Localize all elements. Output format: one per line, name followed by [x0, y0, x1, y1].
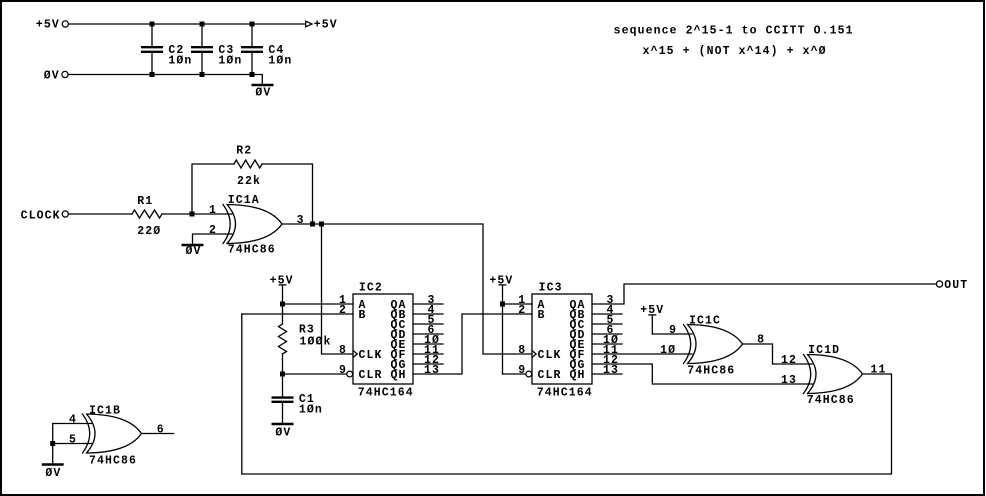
junction R3 C1 CLR node: [280, 372, 285, 377]
wire feedback to IC2 pin B: [242, 313, 353, 315]
wire 0V bottom rail: [69, 74, 253, 76]
svg-text:ØV: ØV: [45, 467, 61, 480]
svg-text:QH: QH: [570, 369, 586, 382]
svg-text:QH: QH: [391, 369, 407, 382]
node OUT terminal: [936, 281, 942, 287]
wire CLOCK input: [69, 213, 133, 215]
junction bottom rail C2: [150, 72, 155, 77]
svg-text:2: 2: [518, 304, 526, 317]
svg-text:CLK: CLK: [359, 349, 383, 362]
svg-text:9: 9: [669, 324, 677, 337]
wire IC1B inputs tied: [53, 424, 92, 464]
pin 12 IC3 QG wire to IC1D pin 13: [592, 364, 813, 384]
node 0V left terminal: [62, 71, 68, 77]
pin 11 IC2 QF stub: [413, 353, 443, 355]
wire IC1A pin 2 to ground: [193, 234, 233, 244]
svg-text:74HC86: 74HC86: [89, 454, 137, 467]
pin 3 IC2 QA stub: [413, 303, 443, 305]
junction node 3 R2: [310, 222, 315, 227]
svg-text:CLK: CLK: [538, 349, 562, 362]
junction IC3 pin A +5V: [500, 302, 505, 307]
wire feedback IC1D out to IC2 B: [242, 314, 892, 474]
svg-text:1: 1: [209, 204, 217, 217]
pin 9 bubble IC3 CLR: [526, 371, 532, 377]
junction bottom rail C3: [200, 72, 205, 77]
svg-text:2: 2: [209, 224, 217, 237]
ground top decoupling: [252, 75, 262, 84]
svg-text:22Ø: 22Ø: [137, 225, 161, 238]
pin 4 IC3 QB stub: [592, 313, 622, 315]
xor gate IC1D: [804, 355, 811, 394]
svg-text:74HC86: 74HC86: [807, 394, 855, 407]
ground IC1A pin 2: [182, 244, 204, 246]
pin 13 IC2 QH wire to IC3 B: [413, 314, 532, 374]
svg-text:1Ø: 1Ø: [660, 344, 676, 357]
junction top rail C3: [200, 22, 205, 27]
svg-text:74HC164: 74HC164: [358, 386, 414, 399]
wire feedback up to R2: [192, 164, 234, 214]
svg-text:CLOCK: CLOCK: [21, 210, 61, 223]
svg-text:4: 4: [69, 414, 77, 427]
resistor R3 100k: [282, 304, 284, 374]
node CLOCK terminal: [62, 211, 68, 217]
wire +5V node to IC3 pin 9: [503, 373, 526, 375]
svg-text:8: 8: [518, 344, 526, 357]
junction IC2 pin A +5V: [280, 302, 285, 307]
wire R2 to IC1A output node: [262, 164, 313, 224]
svg-text:9: 9: [339, 364, 347, 377]
svg-text:+5V: +5V: [36, 18, 60, 31]
svg-text:13: 13: [603, 364, 619, 377]
junction node 3 IC2 clock branch: [319, 222, 324, 227]
wire node 3 clock line: [282, 224, 532, 354]
pin 5 IC3 QC stub: [592, 323, 622, 325]
pin 5 IC2 QC stub: [413, 323, 443, 325]
junction R2 tap: [190, 212, 195, 217]
svg-text:3: 3: [297, 214, 305, 227]
resistor R1 220: [132, 210, 162, 218]
pin 9 bubble IC2 CLR: [347, 371, 353, 377]
pin 10 IC2 QE stub: [413, 343, 443, 345]
wire +5V top rail: [69, 23, 306, 25]
svg-text:74HC86: 74HC86: [228, 243, 276, 256]
svg-text:CLR: CLR: [538, 369, 562, 382]
svg-text:13: 13: [424, 364, 440, 377]
wire R1 to IC1A pin 1: [162, 213, 232, 215]
svg-text:74HC164: 74HC164: [537, 386, 593, 399]
svg-text:x^15 + (NOT x^14) + x^Ø: x^15 + (NOT x^14) + x^Ø: [643, 45, 827, 58]
pin 12 IC2 QG stub: [413, 363, 443, 365]
svg-text:IC1D: IC1D: [808, 344, 840, 357]
node +5V right arrow terminal: [306, 21, 312, 27]
capacitor C3: [201, 24, 203, 75]
pin 13 IC3 QH stub: [592, 373, 622, 375]
junction top rail C2: [150, 22, 155, 27]
svg-text:sequence 2^15-1 to CCITT O.151: sequence 2^15-1 to CCITT O.151: [614, 24, 854, 37]
svg-text:1Øn: 1Øn: [299, 404, 323, 417]
svg-text:13: 13: [781, 374, 797, 387]
svg-text:ØV: ØV: [255, 86, 271, 99]
capacitor C1 10n: [282, 374, 284, 423]
svg-text:1Øn: 1Øn: [268, 54, 292, 67]
svg-text:22k: 22k: [237, 175, 261, 188]
svg-text:B: B: [359, 309, 367, 322]
svg-text:R2: R2: [236, 145, 252, 158]
svg-text:8: 8: [339, 344, 347, 357]
junction bottom rail C4: [250, 72, 255, 77]
svg-text:CLR: CLR: [359, 369, 383, 382]
svg-text:9: 9: [518, 364, 526, 377]
svg-text:ØV: ØV: [44, 69, 60, 82]
svg-text:IC1B: IC1B: [89, 405, 121, 418]
svg-text:IC1A: IC1A: [228, 194, 260, 207]
pin 6 IC2 QD stub: [413, 333, 443, 335]
pin 6 IC3 QD stub: [592, 333, 622, 335]
svg-text:1Øn: 1Øn: [218, 54, 242, 67]
capacitor C4: [251, 24, 253, 75]
svg-text:B: B: [538, 309, 546, 322]
svg-text:ØV: ØV: [186, 245, 202, 258]
svg-text:IC3: IC3: [539, 282, 563, 295]
pin 4 IC2 QB stub: [413, 313, 443, 315]
xor gate IC1C: [684, 325, 691, 364]
resistor R2 22k: [234, 160, 262, 168]
shift register IC2 74HC164: [353, 294, 413, 384]
wire +5V to IC1C pin 9: [652, 333, 692, 335]
pin 10 IC3 QE stub: [592, 343, 622, 345]
svg-text:2: 2: [339, 304, 347, 317]
svg-text:IC1C: IC1C: [689, 315, 721, 328]
svg-text:OUT: OUT: [944, 279, 968, 292]
ground C1: [272, 423, 294, 425]
wire +5V to IC2 pin A: [283, 303, 354, 305]
svg-text:6: 6: [157, 424, 165, 437]
wire clock to IC2 CLK: [322, 224, 354, 354]
svg-text:R1: R1: [137, 195, 153, 208]
shift register IC3 74HC164: [532, 294, 592, 384]
svg-text:ØV: ØV: [275, 427, 291, 440]
pin 11 IC3 QF wire to IC1C: [592, 353, 692, 355]
junction IC1B pin 5: [50, 441, 55, 446]
xor gate IC1A: [223, 205, 230, 244]
junction top rail C4: [250, 22, 255, 27]
pin 3 IC3 QA wire to OUT: [592, 284, 936, 304]
wire CLR node to IC2 pin 9: [283, 373, 347, 375]
svg-text:1Øn: 1Øn: [168, 54, 192, 67]
svg-text:1ØØk: 1ØØk: [300, 336, 332, 349]
capacitor C2: [151, 24, 153, 75]
wire +5V to IC3 pin A: [503, 303, 533, 305]
svg-text:IC2: IC2: [359, 282, 383, 295]
svg-text:5: 5: [69, 434, 77, 447]
wire IC1C out to IC1D pin 12: [743, 344, 813, 364]
node +5V left terminal: [62, 21, 68, 27]
xor gate IC1B spare: [83, 414, 90, 453]
svg-text:+5V: +5V: [314, 18, 338, 31]
svg-text:12: 12: [781, 354, 797, 367]
svg-text:74HC86: 74HC86: [687, 364, 735, 377]
ground IC1B inputs: [42, 463, 64, 465]
